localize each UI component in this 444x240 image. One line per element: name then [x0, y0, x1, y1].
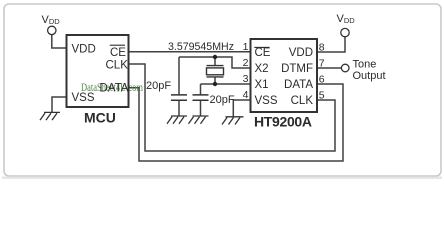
wire VDD2 to HT9200A pin8 [317, 37, 345, 52]
svg-text:VDD: VDD [289, 47, 313, 59]
capacitor C1 20pF wires [178, 57, 180, 116]
capacitor C2 plates [193, 95, 209, 100]
border frame [4, 4, 441, 176]
wire CE net MCU to HT9200A pin1 [129, 51, 251, 53]
wire X2 node [179, 57, 251, 68]
capacitor C2 20pF wires [200, 84, 202, 116]
svg-text:CE: CE [110, 47, 126, 59]
svg-text:20pF: 20pF [210, 94, 235, 106]
wire X1 node [201, 83, 251, 85]
svg-text:HT9200A: HT9200A [254, 114, 312, 130]
svg-text:VSS: VSS [72, 92, 95, 104]
svg-text:Tone: Tone [353, 59, 377, 71]
svg-text:3: 3 [243, 73, 249, 85]
svg-text:CE: CE [255, 47, 271, 59]
ground (C2) [189, 116, 209, 124]
svg-text:2: 2 [243, 57, 249, 69]
wire HT9200A VSS to ground [233, 100, 250, 117]
HT9200A box U2 [251, 39, 318, 112]
wire crystal bottom stub [214, 77, 216, 84]
ground (MCU VSS) [40, 112, 60, 120]
supply VDD2 circle [341, 28, 349, 36]
ground (C1) [167, 116, 187, 124]
node X1 junction [213, 82, 217, 86]
wire VDD1 to MCU [52, 35, 67, 48]
svg-text:DTMF: DTMF [281, 63, 313, 75]
svg-text:X1: X1 [255, 79, 269, 91]
svg-text:X2: X2 [255, 63, 269, 75]
frame bottom shade [2, 177, 442, 179]
svg-text:DATA: DATA [284, 79, 313, 91]
ground (HT9200A VSS) [222, 117, 244, 125]
wire crystal top stub [214, 57, 216, 66]
svg-text:DATA: DATA [100, 83, 129, 95]
svg-text:CLK: CLK [291, 95, 314, 107]
MCU box U1 [67, 35, 129, 107]
node X2 junction [213, 55, 217, 59]
supply VDD1 circle [48, 26, 56, 34]
svg-text:3.579545MHz: 3.579545MHz [168, 41, 234, 53]
capacitor C1 plates [171, 95, 187, 100]
svg-text:6: 6 [319, 74, 325, 86]
svg-text:4: 4 [243, 89, 249, 101]
svg-text:CLK: CLK [106, 59, 129, 71]
svg-text:1: 1 [243, 41, 249, 53]
svg-text:20pF: 20pF [146, 80, 171, 92]
svg-text:VSS: VSS [255, 95, 278, 107]
crystal Y1 [207, 66, 224, 77]
svg-text:VDD: VDD [72, 43, 96, 55]
svg-text:5: 5 [319, 90, 325, 102]
svg-text:MCU: MCU [84, 110, 116, 126]
tone output terminal circle [341, 64, 349, 72]
svg-text:8: 8 [319, 42, 325, 54]
wire DTMF pin7 to tone output [317, 67, 341, 69]
svg-text:7: 7 [319, 58, 325, 70]
wire MCU VSS to ground [52, 97, 67, 112]
wire CLK net MCU to HT9200A pin5 [129, 64, 336, 151]
wire DATA net MCU to HT9200A pin6 [129, 84, 344, 161]
svg-text:Output: Output [353, 70, 386, 82]
